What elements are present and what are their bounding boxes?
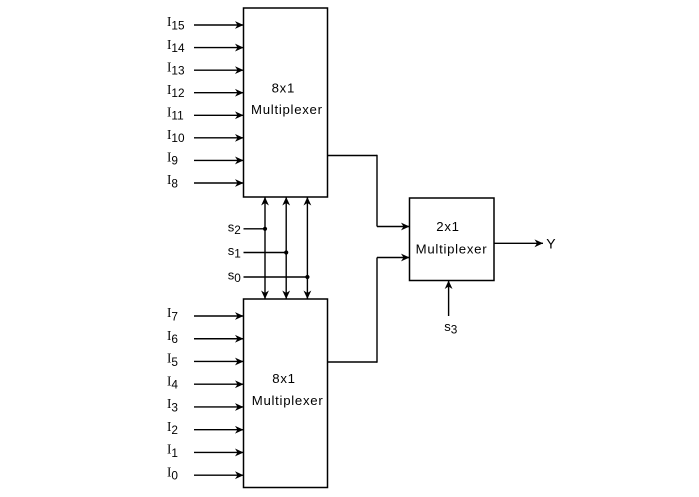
svg-text:s1: s1 <box>228 243 241 261</box>
svg-text:I0: I0 <box>167 464 178 482</box>
wire input I8 <box>194 179 244 187</box>
svg-text:I6: I6 <box>167 328 178 346</box>
wire input I10 <box>194 134 244 142</box>
mux U3 2x1 Multiplexer <box>410 198 495 281</box>
wire input I5 <box>194 358 244 366</box>
wire input I13 <box>194 66 244 74</box>
label I6 <box>167 328 178 346</box>
svg-text:8x1: 8x1 <box>272 80 295 95</box>
label Y <box>546 235 556 251</box>
mux U1 8x1 Multiplexer (top) <box>244 8 328 197</box>
label I3 <box>167 396 178 414</box>
svg-text:I1: I1 <box>167 442 178 460</box>
svg-text:Multiplexer: Multiplexer <box>251 102 323 117</box>
wire select s3 <box>445 281 453 317</box>
wire input I15 <box>194 21 244 29</box>
svg-text:s0: s0 <box>228 268 242 286</box>
label I1 <box>167 442 178 460</box>
wire input I14 <box>194 44 244 52</box>
label I11 <box>167 104 184 122</box>
wire U2 output to U3 input 1 <box>328 254 410 363</box>
svg-text:I9: I9 <box>167 150 178 168</box>
svg-text:I5: I5 <box>167 351 178 369</box>
wire select s0 <box>244 276 308 278</box>
label I13 <box>167 59 185 77</box>
junction s2 node <box>263 227 267 231</box>
svg-text:Multiplexer: Multiplexer <box>252 393 324 408</box>
svg-text:I8: I8 <box>167 172 178 190</box>
label I12 <box>167 82 185 100</box>
label s3 <box>444 319 458 337</box>
wire input I3 <box>194 403 244 411</box>
label I8 <box>167 172 178 190</box>
label I7 <box>167 305 178 323</box>
wire select s1 <box>244 252 287 254</box>
svg-text:Y: Y <box>546 235 556 251</box>
svg-text:s3: s3 <box>444 319 458 337</box>
label I14 <box>167 37 185 55</box>
wire input I7 <box>194 312 244 320</box>
svg-text:I2: I2 <box>167 419 178 437</box>
label I5 <box>167 351 178 369</box>
wire input I4 <box>194 380 244 388</box>
svg-text:I14: I14 <box>167 37 185 55</box>
label I0 <box>167 464 178 482</box>
svg-text:I7: I7 <box>167 305 178 323</box>
svg-text:8x1: 8x1 <box>272 371 295 386</box>
label s0 <box>228 268 242 286</box>
svg-text:I13: I13 <box>167 59 185 77</box>
svg-text:2x1: 2x1 <box>436 219 459 234</box>
wire input I2 <box>194 426 244 434</box>
svg-text:I4: I4 <box>167 373 178 391</box>
label I4 <box>167 373 178 391</box>
label I9 <box>167 150 178 168</box>
wire input I6 <box>194 335 244 343</box>
wire input I12 <box>194 89 244 97</box>
wire input I0 <box>194 471 244 479</box>
wire input I11 <box>194 111 244 119</box>
label I10 <box>167 127 185 145</box>
junction s1 node <box>284 250 288 254</box>
wire select s2 <box>244 228 266 230</box>
svg-text:I15: I15 <box>167 14 185 32</box>
label I2 <box>167 419 178 437</box>
label s1 <box>228 243 241 261</box>
svg-text:s2: s2 <box>228 219 241 237</box>
junction s0 node <box>305 275 309 279</box>
svg-text:Multiplexer: Multiplexer <box>416 241 488 256</box>
wire input I1 <box>194 449 244 457</box>
svg-text:I11: I11 <box>167 104 184 122</box>
wire select bus vertical 0 (between U1 and U2) <box>261 197 269 299</box>
label s2 <box>228 219 241 237</box>
mux U2 8x1 Multiplexer (bottom) <box>244 299 328 488</box>
wire input I9 <box>194 157 244 165</box>
wire select bus vertical 2 (between U1 and U2) <box>304 197 312 299</box>
wire output Y <box>494 239 543 247</box>
wire U1 output to U3 input 0 <box>328 155 410 231</box>
wire select bus vertical 1 (between U1 and U2) <box>282 197 290 299</box>
svg-text:I3: I3 <box>167 396 178 414</box>
svg-text:I10: I10 <box>167 127 185 145</box>
label I15 <box>167 14 185 32</box>
svg-text:I12: I12 <box>167 82 185 100</box>
